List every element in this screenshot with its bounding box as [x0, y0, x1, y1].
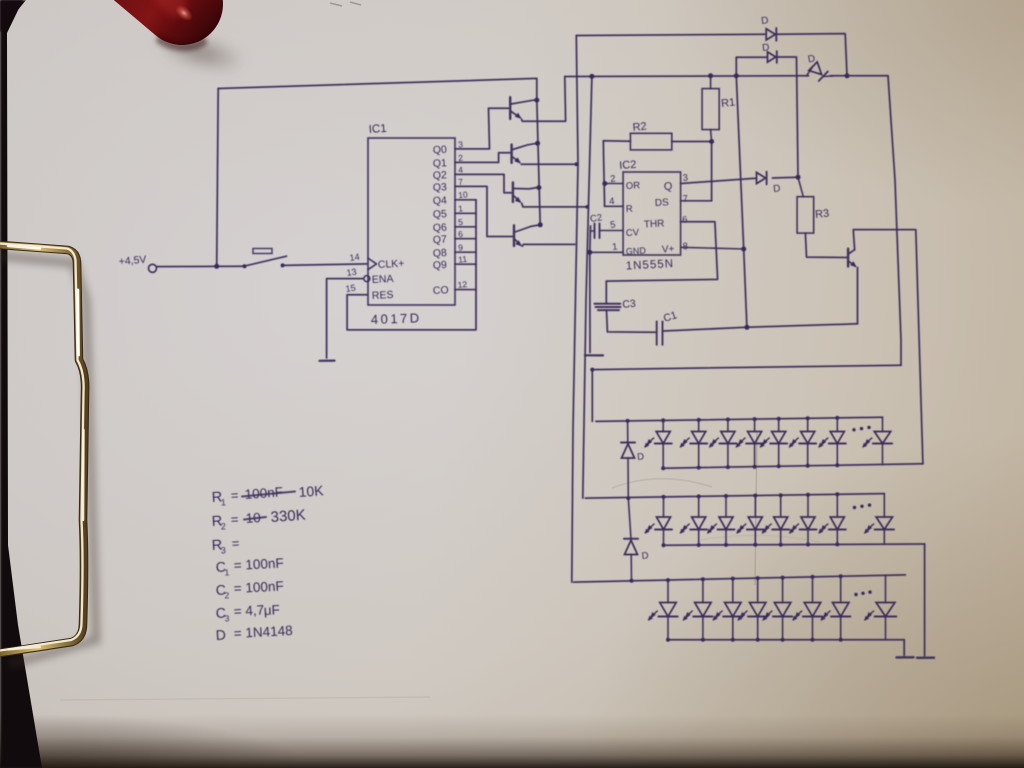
pin 14 CLK arrow	[368, 258, 377, 269]
svg-text:R: R	[626, 204, 634, 215]
wire ENA to ground	[327, 279, 364, 358]
svg-text:C1: C1	[662, 309, 679, 325]
svg-text:6: 6	[682, 214, 688, 225]
wire R2 left lead	[603, 141, 630, 207]
svg-text:GND: GND	[626, 245, 647, 256]
svg-text:=: =	[230, 488, 238, 503]
wire right edge vertical	[888, 76, 901, 365]
svg-text:Q4: Q4	[433, 195, 448, 208]
wire Q output to diode D4	[681, 178, 756, 183]
svg-text:=: =	[231, 536, 239, 551]
svg-text:5: 5	[610, 219, 616, 230]
svg-text:Q5: Q5	[433, 208, 448, 221]
svg-text:D: D	[637, 451, 645, 463]
pin 6 stub Q7	[455, 238, 476, 240]
wire line L2 railB to row2	[583, 77, 592, 499]
LED row3 last	[885, 575, 887, 602]
LED row2 #3	[725, 496, 727, 517]
svg-text:Q7: Q7	[433, 233, 448, 246]
wire rail A	[576, 34, 765, 35]
wire +4,5V to switch	[157, 265, 245, 267]
ground row3	[897, 656, 914, 659]
LED row2 #7	[836, 494, 838, 517]
wire row2 bottom rail	[664, 544, 925, 545]
pin 13 ENA circle	[364, 276, 370, 282]
pin 5 stub Q6	[455, 226, 476, 228]
switch S1 contact dots	[243, 264, 247, 268]
wire RES loop to output bus	[347, 200, 476, 330]
svg-text:Q8: Q8	[433, 247, 448, 260]
svg-text:Q0: Q0	[433, 144, 448, 157]
svg-text:2: 2	[458, 153, 464, 163]
junction row2 #7	[835, 492, 839, 496]
junction row1 #3	[726, 418, 730, 422]
LED row1 #6	[807, 418, 809, 431]
clip wire gold body	[0, 245, 85, 653]
junction D6	[630, 579, 634, 583]
junction R1-R2	[709, 139, 714, 144]
svg-text:= 1N4148: = 1N4148	[233, 623, 293, 641]
junction row2 #6	[806, 493, 810, 497]
wire row1 bottom rail	[663, 464, 923, 468]
wire row2 top rail	[585, 494, 884, 499]
svg-text:14: 14	[349, 252, 360, 263]
wire Q5 emitter down	[857, 268, 859, 324]
svg-text:= 100nF: = 100nF	[233, 578, 284, 596]
svg-text:C3: C3	[622, 298, 637, 311]
pin 10 stub Q4	[455, 199, 476, 201]
wire Q1 emitter to rail B	[522, 77, 566, 122]
LED row3 #7	[840, 576, 842, 602]
LED row3 #5	[782, 578, 784, 603]
diode D1	[766, 29, 775, 40]
svg-text:2: 2	[224, 590, 230, 600]
svg-text:15: 15	[345, 283, 356, 294]
svg-text:D: D	[762, 42, 770, 54]
svg-text:12: 12	[457, 279, 468, 290]
pin 9 stub Q8	[455, 251, 476, 253]
shadow of pen tip	[138, 19, 257, 89]
svg-text:3: 3	[224, 613, 230, 623]
LED row3 #6	[812, 577, 814, 603]
wire Q1 to Q2 base	[455, 153, 510, 163]
wire row3 top rail	[574, 575, 906, 582]
wire top rail to transistor collector bus	[218, 78, 537, 100]
diode D5 row1	[627, 421, 629, 443]
LED row2 #2	[698, 496, 700, 517]
svg-text:V+: V+	[662, 244, 675, 256]
wire R1 top lead	[710, 76, 712, 89]
svg-text:330K: 330K	[270, 507, 306, 526]
pin 11 stub Q9	[455, 263, 476, 265]
svg-text:10K: 10K	[298, 482, 325, 500]
svg-text:CV: CV	[626, 227, 640, 239]
op IC1 counter box	[368, 138, 455, 305]
junction C1 line	[744, 325, 749, 330]
node +4,5V supply terminal	[149, 264, 157, 272]
wire rail B end	[831, 75, 889, 77]
LED row2 #6	[807, 495, 809, 517]
pin 7 DS	[681, 200, 712, 202]
wire C3 to C1 line	[607, 310, 656, 332]
svg-text:9: 9	[458, 242, 464, 252]
svg-text:Q2: Q2	[433, 169, 448, 182]
svg-text:4017D: 4017D	[371, 310, 422, 327]
wire collector bus	[537, 100, 540, 225]
junction supply node	[214, 264, 219, 269]
clipboard clip (metal wire)	[0, 0, 260, 768]
LED row3 #4	[757, 578, 759, 602]
clip wire highlight	[0, 244, 84, 651]
diode D4	[757, 172, 766, 183]
junction row1 #1	[661, 418, 665, 422]
junction collector bus	[534, 98, 539, 103]
diode D6 row2	[628, 498, 631, 539]
wire THR loop to C3	[606, 222, 717, 304]
pin 5 lead	[600, 230, 623, 232]
transistor Q3	[512, 182, 514, 202]
junction row3 #3	[731, 577, 735, 581]
svg-text:Q: Q	[664, 181, 674, 193]
svg-text:4: 4	[609, 196, 615, 207]
svg-text:IC1: IC1	[368, 123, 387, 136]
wire row3 to ground	[903, 640, 905, 656]
svg-text:R3: R3	[815, 208, 830, 221]
svg-text:3: 3	[458, 139, 464, 149]
transistor Q4	[513, 225, 515, 246]
ellipsis row3	[854, 593, 857, 596]
svg-text:1: 1	[221, 497, 227, 507]
svg-text:1: 1	[612, 241, 618, 252]
svg-text:4: 4	[458, 165, 464, 175]
svg-text:5: 5	[458, 217, 464, 227]
ellipsis row1	[852, 428, 855, 431]
wire Q2 to Q3 base	[455, 174, 511, 192]
capacitor C3	[595, 303, 621, 305]
wire R1 bottom lead	[711, 130, 712, 142]
LED row3 #1	[667, 580, 669, 602]
svg-text:1N555N: 1N555N	[626, 258, 675, 273]
wire line L1 railA to row3	[572, 36, 578, 583]
svg-text:Q6: Q6	[433, 222, 448, 235]
svg-text:1: 1	[224, 567, 230, 577]
wire rail B	[565, 75, 809, 78]
junction row2 #5	[779, 493, 783, 497]
svg-text:7: 7	[458, 177, 464, 187]
junction row3 #4	[756, 576, 760, 580]
red pen tip	[0, 0, 320, 130]
wire rail A right to junction	[777, 34, 848, 76]
junction row3 #1	[666, 578, 670, 582]
wire R2 right lead	[672, 142, 712, 201]
svg-text:ENA: ENA	[372, 273, 394, 286]
junction pin2 on R2 vertical	[602, 181, 607, 186]
LED row2 #4	[754, 496, 756, 518]
LED row1 #3	[727, 420, 729, 432]
LED row1 #1	[662, 420, 664, 431]
switch S1 lever	[246, 256, 287, 266]
LED row2 #5	[780, 495, 782, 517]
svg-text:D: D	[215, 626, 226, 643]
LED row1 #7	[836, 418, 838, 432]
junction L2 T3 emitter	[585, 205, 589, 209]
paper lighting overlays	[0, 714, 1024, 768]
pin 2 lead	[604, 183, 623, 185]
junction row3 #6	[811, 575, 815, 579]
junction row2 #2	[697, 494, 701, 498]
svg-text:11: 11	[458, 254, 468, 265]
wire R3 to Q5 base	[805, 233, 846, 257]
svg-text:OR: OR	[626, 180, 641, 192]
junction row1 #2	[697, 418, 701, 422]
LED row3 #3	[732, 579, 734, 603]
junction row2 #3	[724, 494, 728, 498]
resistor R3	[797, 197, 814, 233]
LED row2 last	[883, 494, 885, 517]
ellipsis row2	[853, 506, 856, 509]
wire V+ vertical to rail B and C1 line	[736, 57, 747, 327]
pin 4 lead	[605, 205, 624, 207]
ground row2	[917, 657, 934, 659]
diode D3 tilted on rail B	[807, 66, 814, 76]
clip wire dark base	[0, 245, 85, 653]
pin 1 lead GND	[590, 251, 623, 253]
svg-text:= 4,7: = 4,7	[233, 602, 264, 619]
transistor Q1	[509, 97, 511, 119]
pin 8 V+	[681, 247, 744, 249]
svg-text:D: D	[761, 15, 769, 27]
svg-text:Q3: Q3	[433, 181, 448, 194]
svg-text:=: =	[230, 512, 238, 527]
wire row1 feed horizontal	[592, 365, 901, 421]
junction row1 #7	[835, 416, 839, 420]
LED row2 #1	[663, 497, 665, 517]
svg-text:3: 3	[221, 545, 227, 555]
wire Q2 emitter to line L1	[521, 163, 576, 165]
transistor Q2	[510, 145, 512, 163]
wire Q0 to Q1 base	[455, 108, 509, 149]
LED row3 #2	[702, 579, 704, 602]
pin 1 stub Q5	[455, 212, 476, 214]
svg-text:2: 2	[610, 173, 616, 184]
wire D4 to R3 junction	[773, 176, 799, 179]
ground at ENA	[320, 360, 335, 362]
LED row1 #4	[754, 419, 756, 431]
svg-text:13: 13	[346, 267, 357, 278]
svg-text:THR: THR	[644, 218, 665, 230]
svg-text:8: 8	[682, 241, 688, 252]
junction row3 #7	[839, 574, 843, 578]
wire R3 top lead	[798, 177, 803, 197]
resistor R1	[702, 89, 719, 130]
junction row1 #5	[777, 417, 781, 421]
wire row3 bottom rail	[668, 639, 904, 641]
junction pin1 gnd	[587, 250, 592, 255]
svg-text:1: 1	[458, 203, 464, 213]
svg-text:CO: CO	[433, 284, 449, 297]
wire supply node up to top rail	[217, 89, 219, 267]
svg-text:+4,5V: +4,5V	[118, 254, 147, 268]
clip shadow	[0, 256, 96, 664]
junction L1 T2 emitter	[575, 162, 579, 166]
wire Q5 collector to row1 return	[853, 230, 923, 464]
junction D2-D4-R3	[796, 175, 801, 180]
svg-text:2: 2	[221, 521, 227, 531]
junction V+	[741, 247, 746, 252]
wire row2 to ground	[924, 544, 926, 656]
wire switch to CLK pin	[284, 264, 368, 266]
junction rail B dots	[589, 74, 594, 79]
svg-text:μF: μF	[263, 602, 280, 618]
wire C1 to Q5 emitter	[664, 324, 858, 331]
wire Q3 emitter to line L2	[522, 203, 588, 207]
LED row1 last	[882, 417, 884, 431]
svg-text:RES: RES	[372, 289, 394, 302]
svg-text:7: 7	[682, 193, 688, 204]
svg-text:D: D	[641, 550, 649, 562]
switch S1 bar	[253, 249, 272, 254]
wire ground line L3	[589, 226, 592, 353]
transistor Q5	[847, 249, 849, 267]
LED row1 #5	[778, 419, 780, 432]
wire Q3 to Q4 base	[455, 186, 513, 236]
svg-text:6: 6	[458, 229, 464, 239]
op IC2 555 box	[623, 172, 681, 255]
svg-text:R2: R2	[632, 121, 647, 134]
junction row1 #6	[806, 416, 810, 420]
junction row2 #4	[753, 494, 757, 498]
svg-text:Q1: Q1	[433, 157, 448, 170]
junction row3 #2	[701, 577, 705, 581]
junction row2 #1	[662, 495, 666, 499]
capacitor C2	[599, 224, 601, 239]
svg-text:= 100nF: = 100nF	[233, 555, 284, 573]
clipboard dark left edge	[0, 0, 60, 768]
junction row1 feed corner	[590, 368, 594, 372]
svg-text:C2: C2	[589, 212, 603, 225]
svg-text:DS: DS	[655, 197, 670, 209]
svg-text:D: D	[807, 53, 816, 65]
wire row1 top rail	[596, 417, 883, 421]
svg-text:CLK+: CLK+	[378, 258, 405, 271]
ground at IC2	[585, 354, 603, 356]
junction row3 #5	[781, 576, 785, 580]
svg-text:Q9: Q9	[433, 259, 448, 272]
diode D2	[736, 56, 766, 58]
svg-text:IC2: IC2	[619, 159, 637, 172]
junction row1 #4	[753, 417, 757, 421]
LED row1 #2	[698, 420, 700, 432]
svg-text:R1: R1	[721, 97, 736, 110]
svg-text:10: 10	[458, 189, 469, 200]
pin 12 stub CO	[455, 289, 476, 291]
capacitor C1	[656, 321, 658, 344]
resistor R2	[630, 133, 671, 150]
svg-text:D: D	[773, 183, 781, 195]
junction D5	[626, 419, 630, 423]
wire Q4 emitter to line L1	[522, 244, 575, 246]
